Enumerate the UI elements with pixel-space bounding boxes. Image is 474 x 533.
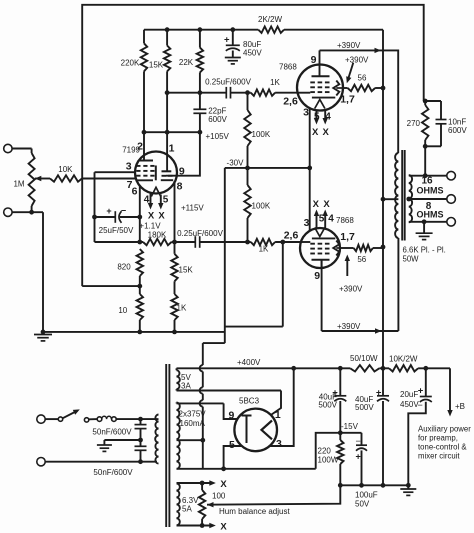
svg-text:1K: 1K bbox=[259, 245, 269, 254]
svg-text:+: + bbox=[356, 452, 361, 462]
svg-text:600V: 600V bbox=[208, 115, 227, 124]
svg-text:2x375V: 2x375V bbox=[179, 410, 207, 419]
svg-text:+390V: +390V bbox=[337, 41, 361, 50]
svg-text:50nF/600V: 50nF/600V bbox=[92, 427, 132, 436]
svg-text:9: 9 bbox=[311, 54, 317, 66]
svg-text:6: 6 bbox=[132, 186, 138, 198]
svg-text:160mA: 160mA bbox=[180, 419, 206, 428]
svg-text:7868: 7868 bbox=[336, 216, 354, 225]
svg-text:+390V: +390V bbox=[345, 55, 369, 64]
svg-text:500V: 500V bbox=[318, 401, 337, 410]
svg-text:1: 1 bbox=[169, 142, 175, 154]
svg-text:4: 4 bbox=[144, 194, 150, 205]
svg-text:5: 5 bbox=[314, 111, 320, 122]
svg-text:20uF: 20uF bbox=[400, 390, 418, 399]
svg-text:50V: 50V bbox=[355, 500, 370, 509]
svg-text:X: X bbox=[158, 211, 165, 222]
svg-text:−: − bbox=[121, 206, 126, 216]
svg-text:4: 4 bbox=[325, 111, 331, 122]
svg-text:3: 3 bbox=[276, 438, 282, 450]
svg-text:2K/2W: 2K/2W bbox=[258, 15, 282, 24]
svg-text:−: − bbox=[356, 436, 361, 446]
svg-text:100K: 100K bbox=[252, 130, 271, 139]
svg-text:3: 3 bbox=[304, 217, 310, 229]
svg-text:5A: 5A bbox=[182, 505, 192, 514]
svg-text:+: + bbox=[106, 206, 111, 216]
svg-text:100K: 100K bbox=[252, 202, 271, 211]
svg-text:+1.1V: +1.1V bbox=[139, 222, 161, 231]
svg-text:+: + bbox=[418, 386, 424, 397]
svg-text:7868: 7868 bbox=[279, 62, 297, 71]
svg-text:600V: 600V bbox=[448, 126, 467, 135]
svg-text:Hum balance adjust: Hum balance adjust bbox=[219, 507, 290, 516]
svg-text:5: 5 bbox=[163, 195, 169, 206]
svg-text:15K: 15K bbox=[149, 61, 164, 70]
svg-text:1,7: 1,7 bbox=[340, 231, 355, 243]
svg-text:5: 5 bbox=[319, 214, 325, 225]
svg-text:X: X bbox=[323, 199, 330, 210]
svg-text:1M: 1M bbox=[13, 179, 24, 188]
svg-text:-30V: -30V bbox=[227, 159, 245, 168]
svg-text:2,6: 2,6 bbox=[283, 95, 298, 107]
svg-text:10K/2W: 10K/2W bbox=[389, 355, 418, 364]
svg-text:X: X bbox=[148, 211, 155, 222]
svg-text:−: − bbox=[418, 400, 423, 410]
svg-text:50nF/600V: 50nF/600V bbox=[93, 468, 133, 477]
svg-text:tone-control &: tone-control & bbox=[418, 443, 467, 452]
svg-text:X: X bbox=[323, 127, 330, 138]
svg-text:+105V: +105V bbox=[206, 132, 230, 141]
svg-text:0.25uF/600V: 0.25uF/600V bbox=[205, 78, 251, 87]
svg-text:2: 2 bbox=[137, 140, 143, 152]
svg-text:5BC3: 5BC3 bbox=[239, 397, 260, 406]
svg-text:4: 4 bbox=[328, 214, 334, 225]
svg-text:+115V: +115V bbox=[181, 204, 204, 213]
svg-text:+: + bbox=[224, 34, 230, 45]
svg-text:270: 270 bbox=[407, 119, 421, 128]
svg-text:450V: 450V bbox=[243, 49, 262, 58]
svg-text:100uF: 100uF bbox=[355, 491, 378, 500]
svg-text:Auxiliary power: Auxiliary power bbox=[418, 425, 471, 434]
svg-text:820: 820 bbox=[117, 263, 131, 272]
svg-text:15K: 15K bbox=[179, 266, 194, 275]
svg-text:X: X bbox=[220, 521, 227, 532]
svg-text:9: 9 bbox=[314, 270, 320, 282]
svg-text:-15V: -15V bbox=[341, 422, 359, 431]
svg-text:180K: 180K bbox=[148, 231, 167, 240]
svg-text:220K: 220K bbox=[121, 59, 140, 68]
svg-text:X: X bbox=[312, 127, 319, 138]
svg-text:+390V: +390V bbox=[339, 285, 363, 294]
svg-text:X: X bbox=[313, 199, 320, 210]
svg-text:9: 9 bbox=[179, 165, 185, 177]
svg-text:220: 220 bbox=[318, 447, 332, 456]
svg-text:50/10W: 50/10W bbox=[350, 354, 378, 363]
svg-text:3: 3 bbox=[303, 107, 309, 119]
svg-text:3A: 3A bbox=[181, 382, 191, 391]
svg-text:5: 5 bbox=[229, 439, 235, 451]
svg-text:+400V: +400V bbox=[237, 358, 261, 367]
svg-text:1: 1 bbox=[275, 409, 281, 421]
svg-text:+390V: +390V bbox=[337, 322, 361, 331]
svg-text:1K: 1K bbox=[270, 78, 280, 87]
svg-text:8: 8 bbox=[177, 181, 183, 193]
svg-text:500V: 500V bbox=[355, 403, 374, 412]
svg-text:56: 56 bbox=[357, 255, 366, 264]
svg-text:0.25uF/600V: 0.25uF/600V bbox=[177, 229, 223, 238]
svg-text:+B: +B bbox=[455, 402, 465, 411]
svg-text:2,6: 2,6 bbox=[284, 230, 299, 242]
svg-text:25uF/50V: 25uF/50V bbox=[99, 226, 134, 235]
svg-text:100: 100 bbox=[212, 491, 226, 500]
svg-text:10: 10 bbox=[118, 306, 127, 315]
svg-text:10K: 10K bbox=[58, 165, 73, 174]
svg-text:OHMS: OHMS bbox=[417, 186, 444, 196]
svg-text:56: 56 bbox=[358, 74, 367, 83]
svg-text:1,7: 1,7 bbox=[340, 94, 355, 106]
svg-text:450V: 450V bbox=[400, 400, 419, 409]
svg-text:OHMS: OHMS bbox=[417, 209, 444, 219]
svg-text:22K: 22K bbox=[179, 58, 194, 67]
svg-text:50W: 50W bbox=[403, 255, 420, 264]
svg-text:mixer circuit: mixer circuit bbox=[418, 452, 460, 461]
svg-text:X: X bbox=[220, 479, 227, 490]
svg-text:+: + bbox=[376, 387, 382, 398]
svg-text:3: 3 bbox=[126, 161, 132, 173]
svg-text:6.6K Pl. - Pl.: 6.6K Pl. - Pl. bbox=[403, 246, 446, 255]
svg-text:1K: 1K bbox=[177, 304, 187, 313]
svg-text:9: 9 bbox=[228, 410, 234, 422]
svg-text:for preamp,: for preamp, bbox=[418, 434, 458, 443]
svg-text:100W: 100W bbox=[318, 456, 339, 465]
